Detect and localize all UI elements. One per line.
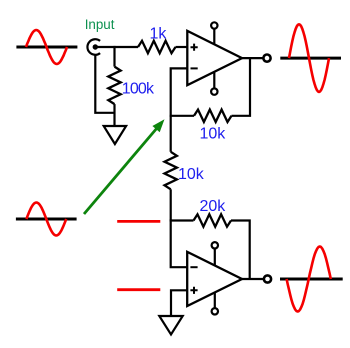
input waveform axis <box>16 46 77 49</box>
svg-text:1k: 1k <box>150 25 168 42</box>
U2 negative supply pin <box>212 292 218 314</box>
wire 1k to op-amp U1 + input <box>176 46 188 48</box>
annotation arrow to node A <box>84 119 165 214</box>
op-amp U2 <box>187 252 242 306</box>
red level marker upper <box>117 220 160 223</box>
U2 positive supply pin <box>212 242 218 265</box>
input jack connector J1 <box>87 39 100 55</box>
input waveform sine <box>26 30 67 64</box>
output terminal 2 <box>264 275 271 282</box>
resistor 1k <box>138 41 176 53</box>
wire U1 output <box>242 57 263 59</box>
svg-text:10k: 10k <box>200 125 227 142</box>
wire 10k to U1 output <box>232 58 251 116</box>
wire series 10k to node B <box>170 189 172 220</box>
red level marker lower <box>117 288 160 291</box>
resistor 100k <box>108 67 120 105</box>
output waveform 2 sine (inverted) <box>287 247 331 312</box>
wire jack tip to 1k <box>95 46 138 48</box>
U1 negative supply pin <box>211 72 217 95</box>
U2 plus sign <box>190 287 197 294</box>
resistor 20k feedback U2 <box>194 214 232 226</box>
wire junction down to 100k <box>113 46 115 67</box>
wire feedback node to 10k <box>170 115 194 117</box>
output waveform 1 axis <box>280 57 341 60</box>
resistor 10k feedback U1 <box>194 110 232 122</box>
wire jack sleeve down <box>95 55 114 113</box>
virtual node waveform axis <box>16 218 77 221</box>
svg-text:10k: 10k <box>178 166 205 183</box>
output waveform 2 axis <box>280 278 343 281</box>
U1 minus sign <box>191 67 198 69</box>
svg-text:Input: Input <box>85 17 115 32</box>
U1 plus sign <box>191 44 198 51</box>
svg-text:20k: 20k <box>200 198 227 215</box>
resistor 10k series <box>165 152 177 190</box>
wire node B down to U2 inverting input <box>171 219 188 267</box>
output waveform 1 sine <box>289 24 329 92</box>
wire U1 inverting input to feedback node <box>171 68 188 115</box>
ground (U2 input) <box>159 316 182 335</box>
U2 minus sign <box>190 266 197 268</box>
virtual node waveform sine <box>26 203 66 236</box>
wire 20k to U2 output <box>231 221 250 280</box>
op-amp U1 <box>187 31 242 85</box>
wire U2 noninverting input to ground <box>171 290 187 316</box>
U1 positive supply pin <box>211 22 217 44</box>
ground (input) <box>104 126 126 144</box>
output terminal 1 <box>263 55 270 62</box>
svg-text:100k: 100k <box>122 80 155 97</box>
wire 100k bottom to ground node <box>113 104 115 126</box>
wire node B to 20k <box>170 219 194 221</box>
wire U2 output <box>242 278 264 280</box>
wire feedback node down to series 10k <box>170 116 172 152</box>
